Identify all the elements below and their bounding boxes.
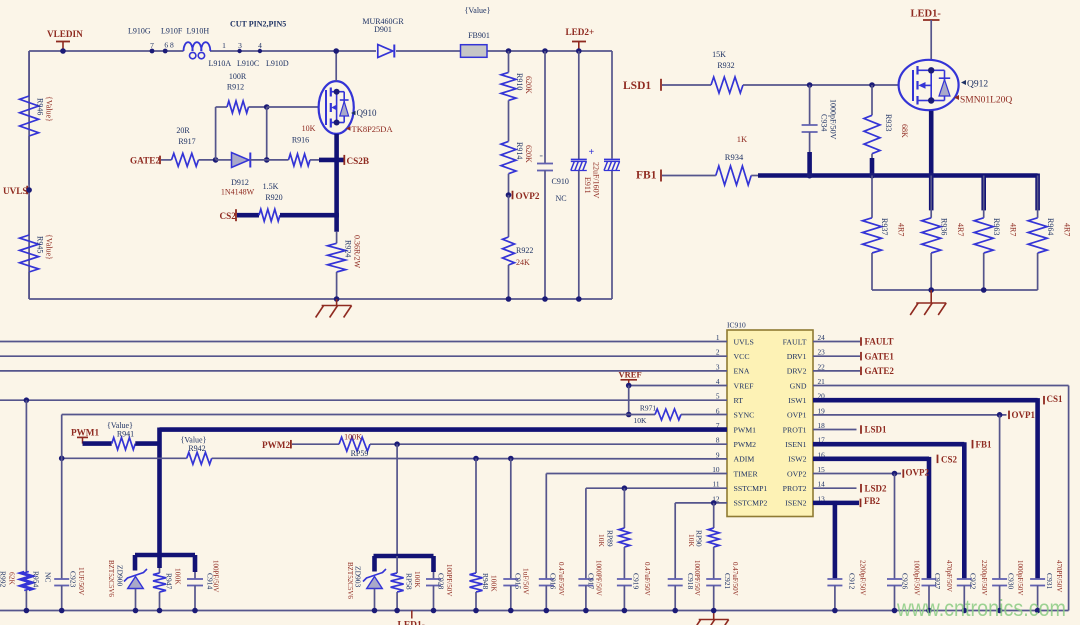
port OVP1 [1009, 410, 1035, 420]
svg-text:100PF/50V: 100PF/50V [445, 564, 453, 596]
svg-text:1.5K: 1.5K [263, 182, 279, 191]
svg-text:1000pF/50V: 1000pF/50V [829, 99, 838, 140]
wire top rail [29, 50, 612, 52]
svg-text:RP59: RP59 [351, 449, 369, 458]
wire pin12 SSTCMP2 [675, 500, 727, 506]
svg-text:PWM1: PWM1 [734, 425, 757, 434]
svg-text:C919: C919 [632, 573, 641, 590]
svg-text:C912: C912 [848, 573, 857, 590]
svg-text:3: 3 [238, 41, 242, 50]
svg-text:R917: R917 [178, 137, 195, 146]
svg-text:NC: NC [44, 572, 53, 582]
svg-text:SYNC: SYNC [734, 411, 755, 420]
svg-text:RT: RT [734, 396, 744, 405]
capacitor E911 [571, 48, 595, 302]
svg-text:OVP2: OVP2 [516, 191, 540, 201]
port GATE2 right [861, 366, 894, 376]
resistor R946 [20, 51, 39, 185]
resistor R971 [655, 409, 727, 420]
label C912 [848, 560, 867, 595]
svg-text:2200pF/50V: 2200pF/50V [980, 560, 988, 595]
capacitor right vertical E911b [604, 160, 620, 171]
svg-text:CS2: CS2 [220, 211, 237, 221]
svg-text:C921: C921 [723, 573, 732, 590]
svg-text:C930: C930 [1007, 573, 1016, 590]
svg-text:OVP1: OVP1 [1012, 410, 1036, 420]
resistor R942 [187, 452, 212, 464]
svg-text:620K: 620K [524, 76, 533, 94]
label RP58 [405, 571, 423, 590]
wire bottom rail [29, 298, 612, 300]
wire bottom rail LED1- [0, 610, 1069, 612]
svg-text:Q910: Q910 [357, 108, 377, 118]
svg-text:SMN01L20Q: SMN01L20Q [960, 96, 1012, 106]
port PWM1 [71, 427, 99, 443]
wire CS2 thick right [280, 213, 339, 218]
power flag VLEDIN [47, 29, 83, 54]
label C910 [552, 177, 569, 203]
svg-text:1000pF/50V: 1000pF/50V [1016, 560, 1024, 595]
svg-text:ISW1: ISW1 [788, 396, 806, 405]
wire Q910 drain [333, 48, 339, 81]
svg-text:L910A: L910A [209, 59, 232, 68]
svg-text:R914: R914 [515, 142, 524, 159]
label L910 pin numbers [150, 41, 262, 51]
wire pin23 DRV1 [813, 355, 860, 357]
svg-text:LSD1: LSD1 [865, 425, 888, 435]
svg-text:2200pF/50V: 2200pF/50V [859, 560, 867, 595]
svg-text:UVLS: UVLS [3, 186, 28, 196]
label C923 [69, 567, 87, 596]
svg-text:GATE1: GATE1 [865, 351, 895, 361]
label C934 [820, 99, 838, 140]
svg-text:C910: C910 [552, 177, 569, 186]
wire pin13 ISEN2 thick [813, 501, 859, 579]
ground top-left [316, 299, 352, 318]
svg-text:R964: R964 [1046, 218, 1055, 235]
wire Q910 source thick [334, 134, 339, 232]
resistor R920 [259, 209, 280, 221]
svg-text:L910D: L910D [266, 59, 289, 68]
svg-text:ISEN2: ISEN2 [785, 499, 806, 508]
svg-text:62K: 62K [8, 572, 17, 586]
svg-text:C917: C917 [587, 573, 596, 590]
svg-text:FAULT: FAULT [865, 337, 894, 347]
label R933 [884, 114, 909, 138]
port PWM2 [262, 440, 339, 450]
wire CS2B thick [319, 158, 344, 163]
svg-text:VREF: VREF [619, 369, 642, 379]
zener ZD900 [124, 569, 147, 613]
svg-text:CS1: CS1 [1047, 394, 1064, 404]
capacitor C923 [54, 579, 69, 613]
power flag VREF [619, 369, 642, 388]
port LSD1 right [861, 425, 887, 435]
svg-text:R933: R933 [884, 114, 893, 131]
zener ZD903 [363, 569, 386, 613]
svg-text:6 8: 6 8 [164, 41, 174, 50]
resistor R954 [24, 572, 34, 591]
svg-text:C922: C922 [969, 573, 978, 590]
svg-text:VLEDIN: VLEDIN [47, 29, 83, 39]
svg-text:{Value}: {Value} [45, 234, 54, 260]
svg-text:1000PF/50V: 1000PF/50V [595, 560, 603, 596]
label RP59 [344, 432, 368, 458]
svg-text:SSTCMP2: SSTCMP2 [734, 499, 768, 508]
port LSD2 [861, 484, 887, 494]
wire pin20 ISW1 thick [813, 398, 1038, 579]
label C922 [969, 560, 989, 595]
svg-text:L910H: L910H [187, 26, 210, 35]
svg-text:DRV2: DRV2 [787, 367, 807, 376]
svg-text:R954: R954 [32, 571, 41, 588]
resistor R937 [863, 176, 882, 291]
label R947 [165, 568, 183, 590]
capacitor C919 [617, 579, 632, 613]
resistor R963 [974, 176, 993, 291]
svg-text:LSD1: LSD1 [623, 80, 651, 92]
svg-text:FB1: FB1 [976, 439, 993, 449]
resistor RP58 [391, 556, 404, 613]
svg-text:C926: C926 [901, 573, 910, 590]
wire pin19 OVP1 [813, 412, 1007, 579]
label RP90 [687, 530, 704, 548]
svg-text:LED2+: LED2+ [566, 27, 595, 37]
wire pin3 ENA [0, 370, 727, 372]
capacitor C918 [668, 503, 683, 613]
svg-text:C923: C923 [69, 571, 78, 588]
wire pin21 GND [813, 386, 1069, 611]
resistor R922 [503, 237, 515, 302]
svg-text:GND: GND [790, 381, 807, 390]
resistor R932 [711, 77, 899, 93]
capacitor C910 [537, 48, 553, 302]
svg-text:470pF/50V: 470pF/50V [945, 560, 953, 592]
label C918 [686, 560, 701, 596]
wire right vertical lower [611, 171, 613, 300]
svg-text:R941: R941 [117, 429, 134, 438]
svg-text:C916: C916 [549, 573, 558, 590]
resistor R947 [153, 568, 166, 613]
label Q910 [346, 108, 393, 134]
port FB1 right [973, 439, 993, 449]
label R932 [712, 50, 735, 70]
label R914 [515, 142, 533, 163]
svg-text:ZD900: ZD900 [116, 565, 125, 586]
wire left vertical [28, 51, 30, 299]
svg-text:100K: 100K [344, 432, 362, 441]
svg-text:{Value}: {Value} [45, 96, 54, 122]
svg-text:L910F: L910F [161, 26, 183, 35]
label IC910 [727, 320, 746, 329]
label C917 [587, 560, 603, 596]
wire RT vertical [25, 400, 27, 571]
svg-text:CS2: CS2 [941, 454, 958, 464]
svg-text:22uF/160V: 22uF/160V [592, 162, 601, 199]
svg-text:R916: R916 [292, 135, 309, 144]
svg-text:C915: C915 [514, 573, 523, 590]
label D912 [221, 178, 255, 197]
capacitor C928 [426, 572, 441, 613]
wire CS2 thick left [237, 213, 259, 218]
watermark [896, 595, 1066, 621]
capacitor C930 [992, 579, 1007, 613]
wire OVP2-R922 [508, 195, 510, 237]
wire right vertical upper [611, 51, 613, 159]
svg-text:4R7: 4R7 [1008, 223, 1017, 236]
label ZD900 [107, 560, 125, 597]
wire pin5 RT [0, 397, 727, 403]
resistor R912 [216, 101, 267, 113]
wire Q912 source thick [929, 111, 934, 211]
svg-text:RP90: RP90 [695, 530, 704, 547]
svg-text:RP58: RP58 [405, 573, 414, 590]
capacitor C916 [539, 474, 554, 614]
svg-text:R922: R922 [516, 246, 533, 255]
svg-text:R937: R937 [880, 218, 889, 235]
power flag LED1- [911, 9, 942, 60]
label R941 [107, 421, 134, 438]
svg-text:TK8P25DA: TK8P25DA [352, 124, 394, 134]
svg-text:20R: 20R [176, 126, 190, 135]
svg-text:R934: R934 [725, 152, 744, 162]
label C931 [1045, 560, 1063, 592]
node R912 right [264, 104, 270, 163]
label R922 [516, 246, 533, 267]
label R954 [32, 571, 53, 588]
wire VREF to SYNC [626, 386, 632, 418]
label CUT PIN2,PIN5 [230, 20, 286, 29]
svg-text:R920: R920 [265, 193, 282, 202]
wire pin18 PROT1 [813, 429, 857, 431]
port CS2B [344, 155, 369, 166]
svg-text:0.47uF/50V: 0.47uF/50V [731, 562, 739, 596]
label RP89 [597, 530, 615, 548]
svg-text:IC910: IC910 [727, 320, 746, 329]
svg-text:GATE2: GATE2 [130, 156, 160, 166]
wire pin2 VCC [0, 355, 727, 357]
svg-text:10K: 10K [597, 534, 606, 548]
port GATE1 [861, 351, 894, 361]
svg-text:{Value}: {Value} [465, 6, 491, 15]
svg-text:4R7: 4R7 [1062, 223, 1071, 236]
svg-text:PROT1: PROT1 [783, 425, 807, 434]
wire pin15 OVP2 [813, 471, 901, 579]
IC U-IC910 box [727, 330, 813, 517]
label R945 [36, 234, 54, 260]
capacitor C914 [187, 572, 203, 613]
node bus joints [807, 173, 935, 179]
svg-text:ADIM: ADIM [734, 455, 755, 464]
svg-text:SSTCMP1: SSTCMP1 [734, 484, 768, 493]
svg-text:C928: C928 [437, 573, 446, 590]
svg-text:24K: 24K [516, 258, 530, 267]
wire gate Q910 [267, 106, 319, 108]
svg-text:R910: R910 [515, 73, 524, 90]
label L910 names top [128, 26, 209, 35]
resistor R910 [501, 51, 516, 141]
svg-text:NC: NC [556, 194, 567, 203]
label R937 [880, 218, 906, 236]
svg-text:C934: C934 [820, 114, 829, 131]
svg-text:CUT PIN2,PIN5: CUT PIN2,PIN5 [230, 20, 286, 29]
svg-text:10K: 10K [302, 124, 316, 133]
label R920 [263, 182, 283, 202]
ground bottom [693, 611, 729, 625]
svg-text:E911: E911 [583, 177, 592, 194]
label C926 [901, 560, 921, 595]
label R934 [725, 134, 748, 162]
capacitor C922 [957, 579, 972, 613]
svg-text:OVP2: OVP2 [787, 469, 807, 478]
label ZD903 [346, 562, 363, 599]
svg-text:ZD903: ZD903 [354, 566, 363, 587]
wire PWM1 wire thick [83, 441, 112, 446]
resistor R917 [172, 153, 216, 166]
IC pin names and numbers [712, 333, 825, 508]
svg-text:D912: D912 [231, 178, 249, 187]
capacitor C927 [922, 579, 937, 613]
label R971 [634, 404, 657, 426]
svg-text:R947: R947 [165, 573, 174, 590]
svg-text:OVP1: OVP1 [787, 411, 807, 420]
svg-text:FB901: FB901 [468, 31, 490, 40]
resistor R924 [328, 232, 346, 302]
wire bracket1 thick [135, 555, 195, 572]
svg-text:LSD2: LSD2 [865, 484, 888, 494]
svg-text:ENA: ENA [734, 367, 750, 376]
label C916 [549, 562, 565, 596]
label R992 [0, 571, 17, 588]
port FB2 [861, 496, 881, 507]
label R916 [292, 124, 316, 144]
inductor L910 [150, 42, 262, 59]
svg-text:100K: 100K [413, 571, 422, 588]
wire R941 to vert thick [135, 441, 159, 446]
label R936 [939, 218, 965, 236]
diode D912 [216, 153, 267, 168]
port CS2 right [938, 454, 958, 464]
svg-text:ISEN1: ISEN1 [785, 440, 806, 449]
svg-text:0.47uF/50V: 0.47uF/50V [643, 562, 651, 596]
label R948 [481, 573, 499, 592]
svg-text:R932: R932 [717, 61, 734, 70]
svg-text:1K: 1K [737, 134, 748, 144]
svg-text:R945: R945 [36, 236, 45, 253]
capacitor C934 [802, 85, 818, 176]
svg-text:DRV1: DRV1 [787, 352, 807, 361]
svg-text:4: 4 [258, 41, 262, 50]
label C915 [514, 568, 531, 595]
svg-text:R912: R912 [227, 83, 244, 92]
svg-text:BZT52C5V6: BZT52C5V6 [107, 560, 115, 597]
svg-text:PROT2: PROT2 [783, 484, 807, 493]
resistor R948 [470, 459, 483, 614]
node R933 top [869, 82, 875, 88]
label Q912 [954, 80, 1012, 106]
svg-text:PWM1: PWM1 [71, 427, 99, 437]
wire bracket2 thick [374, 556, 434, 572]
svg-text:R948: R948 [481, 573, 490, 590]
resistor RP90 [708, 503, 719, 579]
svg-text:FB1: FB1 [636, 170, 657, 182]
label C928 [437, 564, 454, 596]
port GATE2 [130, 156, 172, 166]
label R964 [1046, 218, 1072, 236]
label C919 [632, 562, 651, 596]
svg-text:R963: R963 [992, 218, 1001, 235]
svg-text:FAULT: FAULT [783, 337, 807, 346]
svg-text:TIMER: TIMER [734, 469, 759, 478]
svg-text:0.36R/2W: 0.36R/2W [353, 235, 362, 269]
svg-text:100K: 100K [174, 568, 183, 585]
svg-text:CS2B: CS2B [347, 156, 369, 166]
transistor Q910 [319, 81, 354, 134]
svg-text:0.47uF/50V: 0.47uF/50V [557, 562, 565, 596]
svg-text:R936: R936 [939, 218, 948, 235]
label R912 [227, 72, 247, 92]
resistor R933 [864, 85, 880, 176]
port FAULT [861, 337, 894, 347]
resistor R992 [19, 572, 29, 591]
label C927 [933, 560, 953, 592]
label R917 [176, 126, 195, 146]
svg-text:VREF: VREF [734, 381, 755, 390]
wire pin1 UVLS [0, 341, 727, 343]
svg-text:1N4148W: 1N4148W [221, 187, 255, 196]
resistor R964 [1028, 176, 1047, 291]
wire stub R964 [1035, 174, 1040, 211]
svg-text:470PF/50V: 470PF/50V [1055, 560, 1063, 592]
label R942 [181, 436, 207, 453]
svg-text:L910C: L910C [237, 59, 259, 68]
resistor RP89 [619, 488, 630, 579]
capacitor C912 [827, 579, 842, 613]
wire PWM1 vertical thick [157, 428, 162, 555]
label FB901 [465, 6, 491, 40]
ferrite bead FB901 [461, 45, 488, 58]
port CS1 [1044, 394, 1063, 405]
svg-text:C931: C931 [1045, 573, 1054, 590]
svg-text:7: 7 [150, 41, 154, 50]
wire pin10 TIMER [546, 473, 727, 475]
wire 4R7 bottom join [872, 287, 1038, 293]
port UVLS [3, 186, 32, 196]
svg-text:R942: R942 [188, 444, 205, 453]
wire SYNC row [62, 414, 655, 416]
svg-text:GATE2: GATE2 [865, 366, 895, 376]
label R946 [36, 96, 54, 122]
svg-text:R946: R946 [36, 98, 45, 115]
node R910 top [506, 48, 512, 54]
port CS2 [220, 209, 237, 221]
resistor R916 [267, 154, 320, 166]
svg-text:4R7: 4R7 [897, 223, 906, 236]
svg-text:BZT52C5V6: BZT52C5V6 [346, 562, 354, 599]
svg-text:C927: C927 [933, 573, 942, 590]
wire R992 bottom [24, 591, 30, 614]
svg-text:VCC: VCC [734, 352, 750, 361]
svg-text:1uF/50V: 1uF/50V [522, 568, 531, 595]
capacitor C915 [503, 459, 518, 614]
label C930 [1007, 560, 1024, 595]
wire pin16 ISW2 thick [813, 457, 929, 579]
wire pin9 ADIM row [59, 456, 727, 462]
resistor RP59 [339, 437, 727, 451]
wire pin24 FAULT [813, 341, 860, 343]
svg-text:+: + [589, 147, 595, 158]
svg-text:68K: 68K [900, 124, 909, 138]
